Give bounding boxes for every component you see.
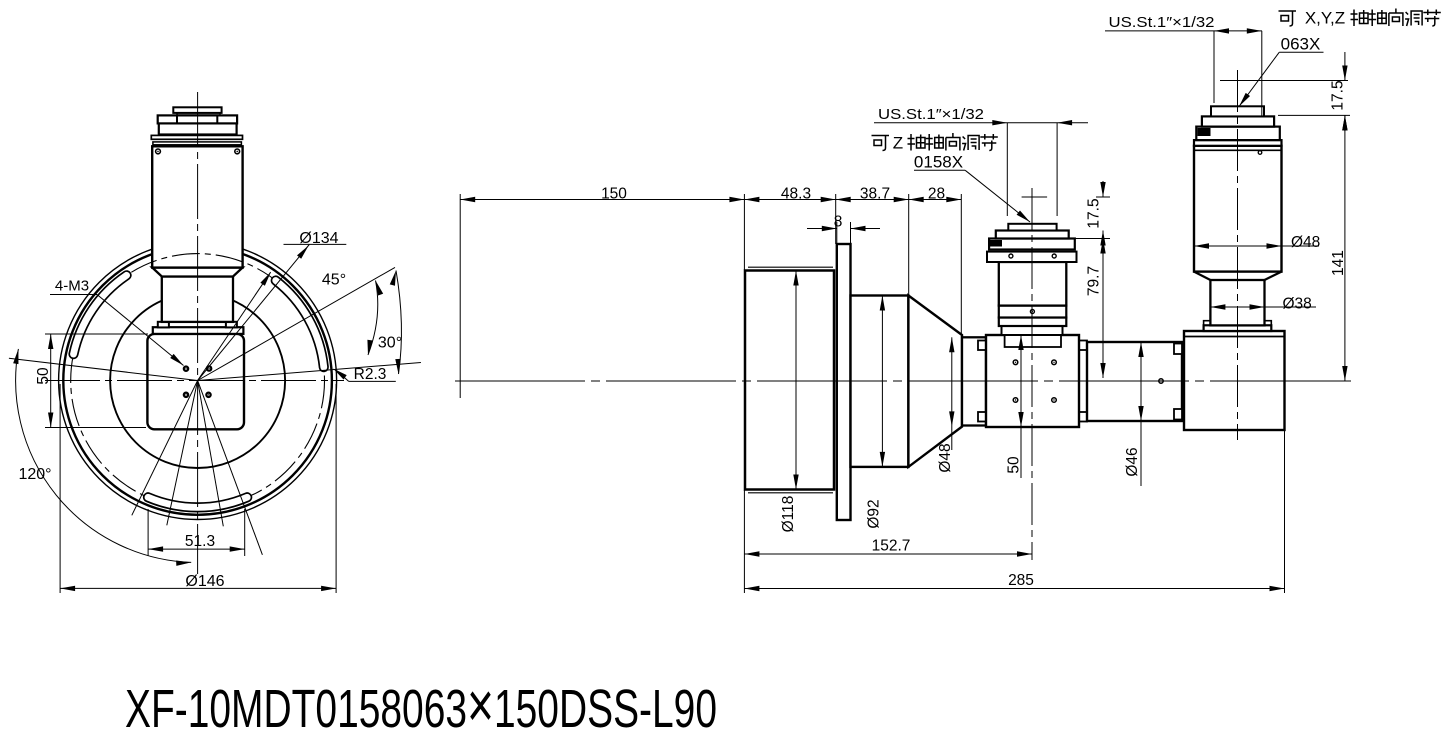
svg-text:150: 150 [601, 186, 627, 203]
svg-text:51.3: 51.3 [185, 533, 215, 550]
svg-text:8: 8 [834, 214, 843, 231]
svg-text:38.7: 38.7 [860, 186, 890, 203]
svg-text:XF-10MDT0158063×150DSS-L90: XF-10MDT0158063×150DSS-L90 [125, 669, 717, 741]
svg-text:50: 50 [35, 367, 52, 385]
svg-text:Ø134: Ø134 [299, 230, 338, 247]
svg-text:R2.3: R2.3 [354, 366, 387, 383]
svg-text:US.St.1″×1/32: US.St.1″×1/32 [878, 106, 984, 123]
svg-text:48.3: 48.3 [781, 186, 811, 203]
svg-text:Ø38: Ø38 [1283, 296, 1312, 313]
svg-text:28: 28 [928, 186, 945, 203]
svg-text:50: 50 [1006, 456, 1023, 474]
svg-text:0158X: 0158X [914, 153, 963, 172]
svg-text:063X: 063X [1281, 35, 1321, 54]
svg-text:17.5: 17.5 [1330, 80, 1347, 110]
svg-text:Z: Z [893, 134, 903, 153]
svg-text:17.5: 17.5 [1086, 198, 1103, 228]
svg-text:152.7: 152.7 [872, 538, 911, 555]
svg-text:Ø48: Ø48 [937, 443, 954, 472]
svg-text:30°: 30° [378, 335, 402, 352]
svg-text:141: 141 [1330, 250, 1347, 276]
svg-text:Ø92: Ø92 [866, 499, 883, 528]
svg-text:79.7: 79.7 [1086, 266, 1103, 296]
svg-text:285: 285 [1008, 572, 1034, 589]
svg-text:45°: 45° [322, 272, 346, 289]
svg-text:X,Y,Z: X,Y,Z [1305, 9, 1345, 28]
svg-text:4-M3: 4-M3 [55, 278, 89, 295]
svg-text:US.St.1″×1/32: US.St.1″×1/32 [1109, 14, 1215, 31]
svg-text:Ø48: Ø48 [1291, 234, 1320, 251]
svg-text:Ø146: Ø146 [185, 573, 224, 590]
svg-text:Ø46: Ø46 [1124, 447, 1141, 476]
svg-text:Ø118: Ø118 [780, 496, 797, 533]
svg-text:120°: 120° [18, 466, 51, 483]
